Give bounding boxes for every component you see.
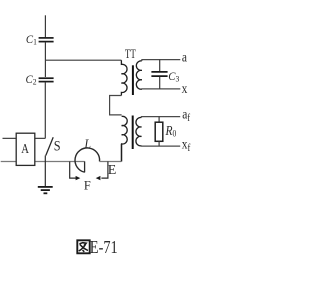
svg-text:af: af [182, 107, 191, 125]
wire: antenna lead down to C1 [44, 15, 46, 37]
TT secondary winding 2 [136, 117, 142, 145]
TT primary winding 1 [121, 60, 127, 95]
wire: ammeter branch [3, 137, 46, 139]
svg-text:L: L [83, 136, 91, 152]
ammeter A [16, 133, 35, 165]
wire: node to TT primary top [45, 59, 121, 61]
coupling adjust arrows F [70, 162, 108, 193]
wire: secondary 2 top lead to terminal af [142, 116, 181, 119]
svg-text:R0: R0 [165, 123, 177, 139]
resistor R0 [155, 117, 176, 147]
wire: loop to E corner and up to TT primary 2 [100, 161, 122, 163]
capacitor C2 [26, 74, 54, 87]
capacitor C3 [151, 60, 179, 89]
svg-text:C3: C3 [168, 70, 179, 83]
svg-text:E: E [108, 163, 117, 178]
svg-text:S: S [54, 138, 61, 154]
TT secondary winding 1 [136, 61, 142, 89]
svg-text:A: A [21, 141, 29, 157]
caption 图E-71 [77, 239, 117, 258]
TT primary winding 2 [122, 116, 128, 161]
wire: secondary 2 bottom lead to terminal xf [142, 145, 181, 147]
svg-text:F: F [84, 178, 91, 192]
wire: C2 down to switch fixed contact [44, 82, 46, 138]
wire: main lower wire [1, 161, 85, 163]
svg-text:C2: C2 [26, 74, 37, 87]
TT core 2 [132, 116, 134, 150]
svg-text:C1: C1 [26, 34, 37, 47]
svg-text:xf: xf [182, 136, 191, 154]
wire: secondary 1 top lead to terminal a [142, 60, 180, 61]
inductor L (coupling loop) [75, 136, 100, 173]
capacitor C1 [26, 34, 54, 47]
svg-text:x: x [182, 81, 188, 96]
switch S [46, 137, 61, 155]
ground [38, 156, 53, 194]
svg-text:E-71: E-71 [90, 239, 118, 258]
wire: secondary 1 bottom lead to terminal x [142, 88, 180, 90]
svg-text:TT: TT [125, 48, 136, 62]
wire: C1 to C2 [44, 42, 46, 77]
TT core 1 [132, 65, 134, 95]
svg-text:a: a [182, 50, 187, 65]
wire: jog between primary windings [110, 96, 122, 115]
